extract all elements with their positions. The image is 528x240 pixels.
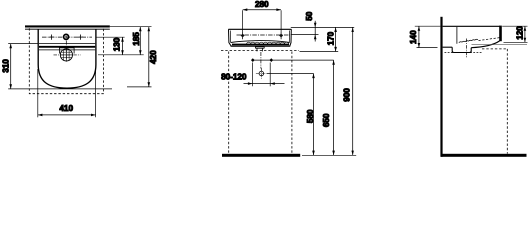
wall line [440,17,442,157]
svg-text:410: 410 [59,103,73,113]
vertical centerline (dash-dot) [65,41,67,63]
tap centerline (dash-dot) [237,34,291,36]
dim 310 extension bottom (long) [8,88,112,90]
dim 650 line [333,60,335,155]
dim 900 line [352,27,354,155]
basin back edge line [25,28,110,31]
dim 170 line [335,27,337,51]
dim 420 line [148,27,150,87]
right side extension: tap line level [96,36,125,38]
sink right edge (thick) [499,26,502,42]
basin right edge [290,29,292,46]
basin top edge [228,28,291,30]
mounting holes line to 650 dim [253,59,334,61]
centerline below drain (dash-dot) [260,52,262,69]
basin bottom scallop arcs [247,42,289,44]
dim 140 extension lines [415,25,441,27]
svg-text:185: 185 [131,32,141,46]
dim 185 line [139,27,141,55]
trap centerline (dash-dot) [465,39,467,59]
mounting frame dashed line [221,50,299,52]
svg-text:50: 50 [304,11,314,21]
trap tub [452,47,471,52]
svg-text:120: 120 [515,26,525,40]
drain connection circle [259,71,264,76]
rim level extension line [291,26,354,28]
basin inner back wall [456,27,458,44]
basin left edge [229,29,232,46]
dim 50 line with outside arrows [314,21,316,42]
shelf lower line [39,49,95,51]
svg-text:130: 130 [112,37,122,51]
dim 310 extension top [8,43,38,45]
floor level extension line [302,154,356,156]
dim 80-120 line [244,83,285,85]
drain circle with strainer grid [60,49,72,61]
basin bottom shadow band [232,43,289,45]
svg-text:580: 580 [305,109,315,123]
floor bar [222,154,300,157]
tap hole marks (filled diamonds with stems) [243,32,282,39]
dim 120 line [524,26,526,42]
drain crosshair horizontal (dash-dot) [54,54,81,56]
right side extension: back edge level [110,26,152,28]
drain box [59,48,74,54]
dim 80-120 extension lines [252,63,254,87]
basin bottom edge [231,45,291,47]
basin outline [38,30,96,89]
tap level extension line [291,34,319,36]
svg-text:310: 310 [1,59,11,73]
drain outlet stub flange [255,47,264,49]
dim 130 line [122,37,124,55]
trap level fine dashed line [445,52,483,54]
dim 310 line [10,44,12,89]
dim 280 line [243,9,281,11]
svg-text:170: 170 [326,31,336,45]
right side extension: 420 bottom [127,86,152,88]
right side extension: drain level [98,54,144,56]
sink bottom level extension line [300,51,339,53]
wall dashed projection lines [228,52,230,154]
center tap hole circle [64,34,69,39]
drain level line to 580 dim [267,73,314,75]
svg-text:900: 900 [342,88,352,102]
dim 140 line [418,26,420,47]
sink curved underside [471,41,499,48]
svg-text:280: 280 [255,0,269,9]
dim 120 extension lines [502,25,527,27]
shelf front edge thin line [39,43,95,45]
drain connection crosshair [256,68,267,79]
tap hole left cross [49,35,54,40]
dashed clearance line [482,48,507,50]
svg-text:140: 140 [408,30,418,44]
basin interior shallow curve [231,41,290,43]
drain outlet stub body [255,48,264,51]
mounting holes [251,58,255,62]
hidden interior dashed line [479,38,501,41]
svg-text:80-120: 80-120 [221,72,247,82]
sink bottom line at wall [443,46,453,48]
installation dashed box [29,28,103,94]
dim 580 line [313,74,315,156]
tap centerline (dash-dot) [42,36,92,38]
dashed projection vertical [506,49,508,154]
wall bar [25,25,110,27]
dim 410 line [38,114,96,116]
sink top edge [443,25,500,27]
shelf front edge thick line [39,46,95,48]
countertop level thin line [472,44,528,46]
dim 280 extension lines [242,10,244,32]
dim 410 extension lines [37,69,39,117]
svg-text:420: 420 [148,50,158,64]
tap hole right cross [78,35,83,40]
floor bar [441,154,527,157]
svg-text:650: 650 [321,113,331,127]
overflow wavy line [459,39,478,42]
